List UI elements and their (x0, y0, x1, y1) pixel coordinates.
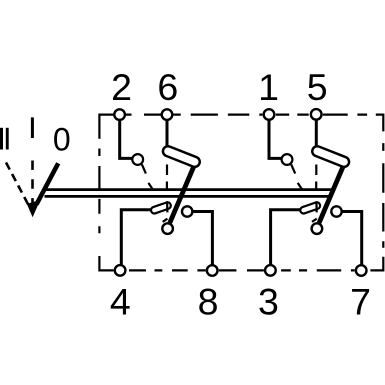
position I dashed line (31, 161, 34, 211)
svg-text:4: 4 (110, 281, 131, 323)
svg-text:2: 2 (111, 66, 132, 108)
contact circle (terminal 8 side) (182, 206, 192, 216)
terminal 2 (114, 109, 125, 120)
svg-text:8: 8 (198, 281, 219, 323)
moving bridge contact (299, 201, 321, 214)
lever arrowhead (27, 200, 41, 217)
dashed contact line from fixed contact 1 (291, 164, 295, 173)
wire from contact to terminal 7 (337, 212, 362, 265)
label II (0, 128, 3, 150)
terminal 1 (264, 109, 275, 120)
enclosure top border (dash-dot) (99, 113, 383, 115)
rocker actuator (161, 145, 201, 169)
switch pole B (269, 120, 362, 265)
fixed contact circle (terminal 2 side) (132, 154, 143, 165)
wire bracket to terminal 3 (271, 210, 302, 265)
manual lever (position 0) (37, 163, 59, 204)
pivot circle (312, 223, 323, 234)
position II dashed line (6, 163, 29, 207)
actuator mechanical dashes (315, 165, 317, 176)
wire from terminal 1 to fixed contact (269, 120, 287, 158)
svg-text:3: 3 (258, 281, 279, 323)
switch lever (170, 163, 196, 223)
actuator mechanical dashes (166, 165, 168, 176)
terminal 4 (115, 265, 126, 276)
svg-text:6: 6 (157, 66, 178, 108)
moving bridge contact (150, 201, 172, 214)
enclosure bottom border (dash-dot) (99, 269, 383, 271)
terminal 5 (311, 109, 322, 120)
terminal 7 (356, 265, 367, 276)
rocker actuator (311, 145, 351, 169)
svg-text:5: 5 (307, 66, 328, 108)
svg-text:7: 7 (350, 281, 371, 323)
wire from contact to terminal 8 (187, 212, 212, 265)
bridge mechanical dash (315, 201, 317, 212)
switch lever (319, 163, 345, 223)
mechanical linkage bar (double line) (45, 188, 332, 191)
pivot tick (312, 219, 317, 222)
terminal 6 (162, 109, 173, 120)
wire from terminal 6 to rocker (166, 120, 169, 148)
svg-text:0: 0 (53, 122, 71, 158)
svg-text:1: 1 (258, 66, 279, 108)
bridge mechanical dash (166, 201, 168, 212)
enclosure right border (dash-dot) (382, 114, 384, 272)
terminal 8 (207, 265, 218, 276)
terminal 3 (265, 265, 276, 276)
contact circle (terminal 7 side) (331, 206, 341, 216)
wire from terminal 2 to fixed contact (120, 120, 138, 158)
pivot tick (163, 219, 168, 222)
wire from terminal 5 to rocker (315, 120, 318, 148)
fixed contact circle (terminal 1 side) (282, 154, 293, 165)
pivot circle (162, 223, 173, 234)
enclosure left border (dash-dot) (98, 114, 100, 272)
dashed contact line from fixed contact 2 (142, 164, 146, 173)
switch pole A (120, 120, 213, 265)
wire bracket to terminal 4 (121, 210, 152, 265)
label I (tick) (31, 117, 34, 138)
